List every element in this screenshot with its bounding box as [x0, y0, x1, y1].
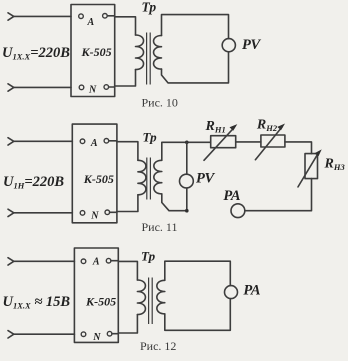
wire input bottom fig2 — [14, 212, 73, 214]
svg-text:A: A — [92, 256, 100, 267]
wire secondary top to PA loop fig3 — [165, 261, 231, 285]
rheostat RH2 box fig2 — [261, 135, 285, 147]
svg-text:Рис. 11: Рис. 11 — [142, 220, 178, 234]
wire RH2 to right corner fig2 — [285, 142, 312, 154]
wire PV tap down fig2 — [186, 142, 188, 174]
wire PV to bottom rail fig2 — [186, 188, 188, 211]
wire RH3 to bottom rail fig2 — [245, 179, 312, 211]
svg-text:U1Х.Х ≈ 15В: U1Х.Х ≈ 15В — [3, 294, 71, 311]
svg-text:К-505: К-505 — [83, 172, 114, 186]
ammeter PA fig3 — [225, 286, 238, 299]
svg-text:U1Х.Х=220В: U1Х.Х=220В — [2, 45, 70, 62]
rheostat RH1 arrow fig2 — [204, 128, 234, 161]
rheostat RH3 arrow fig2 — [298, 153, 319, 187]
terminal N-left fig3 — [81, 332, 86, 337]
svg-text:Рис. 10: Рис. 10 — [142, 95, 178, 109]
wire input top fig1 — [14, 15, 72, 17]
svg-text:PA: PA — [223, 188, 240, 204]
terminal A-right fig2 — [104, 139, 109, 144]
terminal N-right fig2 — [105, 210, 110, 215]
svg-text:К-505: К-505 — [85, 295, 116, 309]
arrow tick input top fig2 — [8, 138, 14, 145]
wire box to primary top fig3 — [111, 261, 137, 280]
transformer secondary winding fig1 — [154, 36, 162, 70]
terminal N-right fig3 — [107, 331, 112, 336]
wire box to primary top fig2 — [109, 141, 138, 161]
transformer primary winding fig3 — [137, 280, 145, 315]
rheostat RH3 box fig2 — [305, 154, 318, 179]
wire box to primary bottom fig3 — [112, 315, 137, 334]
svg-text:PA: PA — [243, 283, 260, 299]
terminal A-left fig2 — [80, 139, 85, 144]
node junction top PV tap fig2 — [185, 141, 189, 145]
arrow tick input bottom fig3 — [8, 331, 14, 338]
voltmeter PV fig2 — [180, 174, 194, 188]
wire secondary top to rail fig2 — [162, 142, 211, 160]
wire input bottom fig1 — [14, 86, 72, 88]
svg-text:N: N — [90, 210, 99, 221]
terminal A-left fig1 — [79, 14, 84, 19]
transformer core fig2 — [147, 158, 151, 200]
terminal A-right fig3 — [106, 258, 111, 263]
svg-text:RН3: RН3 — [324, 157, 346, 173]
terminal A-right fig1 — [103, 14, 108, 19]
wire secondary bottom to rail fig2 — [162, 194, 187, 211]
rheostat RH1 box fig2 — [211, 136, 236, 148]
svg-text:N: N — [88, 84, 97, 95]
transformer secondary winding fig3 — [157, 280, 165, 314]
svg-text:PV: PV — [242, 37, 262, 53]
svg-text:RН1: RН1 — [205, 119, 226, 135]
terminal N-left fig1 — [79, 85, 84, 90]
wire secondary bottom to PA loop fig3 — [165, 299, 231, 331]
svg-text:Рис. 12: Рис. 12 — [140, 339, 176, 353]
svg-text:N: N — [92, 332, 101, 343]
rheostat RH2 arrow fig2 — [255, 127, 282, 160]
voltmeter PV fig1 — [222, 39, 235, 52]
node junction bottom fig2 — [185, 209, 189, 213]
wire box to primary bottom fig1 — [109, 70, 136, 88]
wire box to primary top fig1 — [107, 16, 135, 35]
device box K-505 fig2 — [72, 124, 117, 223]
wire secondary top to PV loop fig1 — [162, 15, 229, 39]
transformer secondary winding fig2 — [154, 160, 162, 194]
arrow tick input top fig3 — [8, 258, 14, 265]
terminal N-left fig2 — [80, 211, 85, 216]
wire input top fig3 — [14, 260, 75, 262]
svg-text:A: A — [87, 17, 95, 28]
transformer core fig3 — [149, 278, 153, 325]
wire box to primary bottom fig2 — [110, 195, 138, 213]
device box K-505 fig1 — [71, 5, 115, 97]
svg-text:Тр: Тр — [142, 0, 157, 15]
svg-text:Тр: Тр — [143, 130, 158, 145]
wire input top fig2 — [14, 140, 73, 142]
svg-text:PV: PV — [196, 171, 216, 187]
wire RH1 to RH2 fig2 — [236, 141, 261, 143]
svg-text:RН2: RН2 — [256, 118, 278, 134]
arrow tick input top fig1 — [8, 13, 14, 20]
terminal A-left fig3 — [81, 259, 86, 264]
svg-text:U1Н=220В: U1Н=220В — [3, 174, 64, 191]
terminal N-right fig1 — [104, 85, 109, 90]
wire secondary bottom to PV loop fig1 — [162, 52, 229, 83]
arrow tick input bottom fig2 — [8, 209, 14, 216]
svg-text:К-505: К-505 — [81, 45, 112, 59]
ammeter PA fig2 — [231, 204, 245, 218]
svg-text:Тр: Тр — [141, 249, 156, 264]
transformer primary winding fig1 — [136, 35, 144, 70]
svg-text:A: A — [90, 138, 98, 149]
arrow tick input bottom fig1 — [8, 84, 14, 91]
transformer primary winding fig2 — [138, 160, 146, 195]
transformer core fig1 — [147, 33, 151, 85]
wire input bottom fig3 — [14, 333, 75, 335]
device box K-505 fig3 — [74, 248, 118, 342]
